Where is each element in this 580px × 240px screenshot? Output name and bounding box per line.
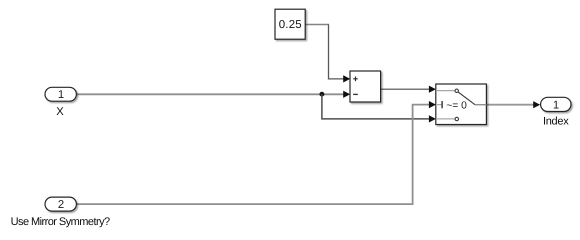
svg-text:X: X <box>56 106 64 118</box>
inport 2 <box>45 197 76 211</box>
switch block <box>436 84 487 125</box>
constant block C1 value 0.25 <box>275 9 305 39</box>
inport 1 <box>45 87 76 101</box>
svg-text:1: 1 <box>553 99 559 111</box>
svg-text:2: 2 <box>58 199 64 211</box>
switch middle input stub <box>436 104 442 106</box>
junction node on X wire <box>319 92 324 97</box>
switch top contact circle <box>455 89 458 92</box>
wire from inport 2 to switch middle input <box>77 101 436 204</box>
sum block (Add, +-) <box>350 71 381 102</box>
svg-text:1: 1 <box>58 89 64 101</box>
wire from constant 0.25 to sum + input <box>305 25 350 83</box>
switch top input stub <box>436 90 455 92</box>
switch output stub <box>475 104 486 106</box>
switch bottom contact circle <box>455 117 458 120</box>
svg-text:~= 0: ~= 0 <box>446 100 467 111</box>
wire branch from junction to switch bottom input <box>322 94 436 122</box>
svg-text:Use Mirror Symmetry?: Use Mirror Symmetry? <box>11 216 110 228</box>
svg-text:Index: Index <box>543 116 569 128</box>
switch threshold tick bar <box>441 101 443 108</box>
svg-text:0.25: 0.25 <box>279 19 302 31</box>
outport 1 <box>541 97 571 111</box>
switch arm diagonal <box>458 92 475 105</box>
wire from inport 1 (X) to sum - input <box>77 91 351 98</box>
wire from switch output to outport 1 <box>486 101 540 108</box>
wire from sum output to switch top input <box>381 86 436 93</box>
switch bottom input stub <box>436 118 455 120</box>
